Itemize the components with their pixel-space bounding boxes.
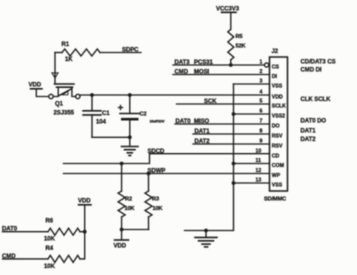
wire gate of Q1 up to R1 [54, 53, 56, 85]
svg-text:10uF/10V: 10uF/10V [150, 119, 165, 124]
wire net DAT0/MISO (pin 7) [175, 123, 270, 125]
svg-text:J2: J2 [272, 49, 279, 55]
resistor R1 [62, 49, 100, 56]
wire VDD rail (Q1 drain to connector pin 4) [80, 94, 270, 96]
resistor R2 [121, 164, 123, 192]
svg-text:WP: WP [272, 173, 281, 179]
svg-text:7: 7 [260, 119, 263, 125]
wire pin 3 stub [234, 83, 270, 85]
svg-text:CLK SCLK: CLK SCLK [301, 97, 332, 103]
svg-text:VSS2: VSS2 [272, 114, 285, 120]
gate arrow [52, 73, 58, 78]
power symbol VDD (bottom left) [78, 198, 91, 205]
power symbol VDD (top left) [29, 83, 49, 97]
svg-text:SDPC: SDPC [122, 48, 139, 54]
svg-text:VDD: VDD [78, 198, 91, 204]
connector J2 SD/MMC socket [264, 49, 288, 203]
svg-text:SCLK: SCLK [272, 104, 286, 110]
junction caps/ground [128, 135, 132, 139]
wire net SCK (pin 5) [177, 103, 270, 105]
svg-text:DO: DO [272, 124, 280, 130]
svg-text:DI: DI [272, 74, 278, 80]
resistor R5 [228, 29, 234, 60]
svg-text:5: 5 [260, 99, 263, 105]
svg-text:10K: 10K [44, 264, 56, 270]
svg-text:DAT2: DAT2 [301, 137, 317, 143]
svg-text:1: 1 [260, 60, 263, 66]
svg-text:DAT1: DAT1 [301, 128, 317, 134]
svg-text:8: 8 [260, 129, 263, 135]
svg-text:CMD DI: CMD DI [301, 68, 322, 74]
junction C2/rail [128, 93, 132, 97]
svg-text:10K: 10K [44, 237, 56, 243]
svg-text:10: 10 [256, 148, 262, 154]
wire R1 to net SDPC [100, 52, 141, 54]
wire joining C1 and C2 bottoms [92, 136, 130, 138]
svg-text:1K: 1K [65, 57, 73, 63]
ground (below C2) [122, 137, 139, 155]
wire R4 up to VDD [80, 205, 85, 259]
svg-text:R6: R6 [46, 219, 54, 225]
svg-text:Q1: Q1 [55, 102, 64, 108]
svg-text:2SJ355: 2SJ355 [54, 111, 75, 117]
svg-text:R3: R3 [152, 197, 159, 203]
wire CMD to R4 [3, 258, 49, 260]
wire net DAT3/PCS31 (pin 1) [173, 64, 264, 66]
wire net CMD/MOSI (pin 2) [173, 74, 270, 76]
svg-text:11: 11 [256, 158, 262, 164]
svg-text:DAT3: DAT3 [175, 60, 191, 66]
svg-text:10K: 10K [125, 206, 135, 212]
svg-text:4: 4 [260, 90, 263, 96]
resistor R4 [48, 255, 80, 262]
svg-text:MISO: MISO [194, 119, 210, 125]
svg-text:6: 6 [260, 109, 263, 115]
power symbol VDD (below R2/R3) [114, 230, 129, 250]
wire net SDWP (to pin 12) [64, 173, 270, 175]
svg-text:VSS: VSS [272, 183, 283, 189]
wire net DAT1 (pin 8) [193, 133, 270, 135]
wire pin 6 stub [234, 113, 270, 115]
transistor Q1 (P-MOSFET 2SJ355) [49, 84, 80, 117]
svg-text:DAT0 DO: DAT0 DO [301, 119, 327, 125]
wire R5 to pin1 line [230, 60, 232, 65]
svg-text:C2: C2 [140, 112, 147, 118]
wire R2/R3 bottoms [122, 229, 149, 231]
svg-text:CD: CD [272, 153, 280, 159]
svg-text:MOSI: MOSI [194, 70, 210, 76]
resistor R6 [48, 228, 80, 235]
svg-text:3: 3 [260, 79, 263, 85]
wire net DAT2 (pin 9) [193, 143, 270, 145]
svg-text:DAT1: DAT1 [195, 129, 211, 135]
ground (main) [195, 231, 217, 247]
junction R2/SDCD [120, 162, 124, 166]
svg-text:CS: CS [272, 65, 280, 71]
resistor R3 [148, 174, 150, 192]
svg-text:VDD: VDD [29, 83, 42, 89]
junction R3/SDWP [147, 172, 151, 176]
svg-text:VDD: VDD [114, 243, 127, 249]
svg-text:R4: R4 [46, 246, 54, 252]
svg-text:9: 9 [260, 139, 263, 145]
svg-text:VSS: VSS [272, 84, 283, 90]
svg-text:10K: 10K [153, 206, 163, 212]
capacitor C2 (electrolytic 10uF/10V) [119, 95, 165, 137]
junction ground stem [204, 229, 208, 233]
svg-text:R2: R2 [125, 197, 132, 203]
svg-text:CMD: CMD [175, 70, 189, 76]
svg-text:C1: C1 [102, 111, 110, 117]
svg-text:SCK: SCK [204, 99, 217, 105]
svg-text:12: 12 [256, 168, 262, 174]
wire net SDCD (to pin 10) [64, 154, 270, 164]
pin 1 circle [265, 63, 269, 67]
svg-text:DAT2: DAT2 [195, 139, 211, 145]
svg-text:52K: 52K [236, 44, 246, 50]
wire pin 13 stub [234, 182, 270, 184]
wire ground bus vertical [185, 84, 234, 231]
svg-text:DAT0: DAT0 [176, 119, 192, 125]
svg-text:13: 13 [256, 178, 262, 184]
wire DAT0 to R6 [3, 231, 49, 233]
svg-text:VDD: VDD [272, 95, 283, 101]
svg-text:2: 2 [260, 69, 263, 75]
wire pin 11 stub [234, 163, 270, 165]
svg-text:SD/MMC: SD/MMC [264, 197, 286, 203]
svg-text:CD/DAT3 CS: CD/DAT3 CS [301, 59, 336, 65]
svg-text:SDCD: SDCD [148, 149, 166, 155]
capacitor C1 [83, 95, 110, 137]
svg-text:R1: R1 [62, 42, 70, 48]
svg-text:RSV: RSV [272, 144, 283, 150]
junction C1/rail [90, 93, 94, 97]
power symbol VCC3V3 [216, 7, 240, 30]
wire R6 to VDD stem [80, 231, 85, 233]
svg-text:R5: R5 [236, 34, 243, 40]
svg-text:104: 104 [96, 120, 107, 126]
svg-text:PCS31: PCS31 [194, 60, 213, 66]
svg-text:RSV: RSV [272, 134, 283, 140]
svg-text:COM: COM [272, 163, 284, 169]
